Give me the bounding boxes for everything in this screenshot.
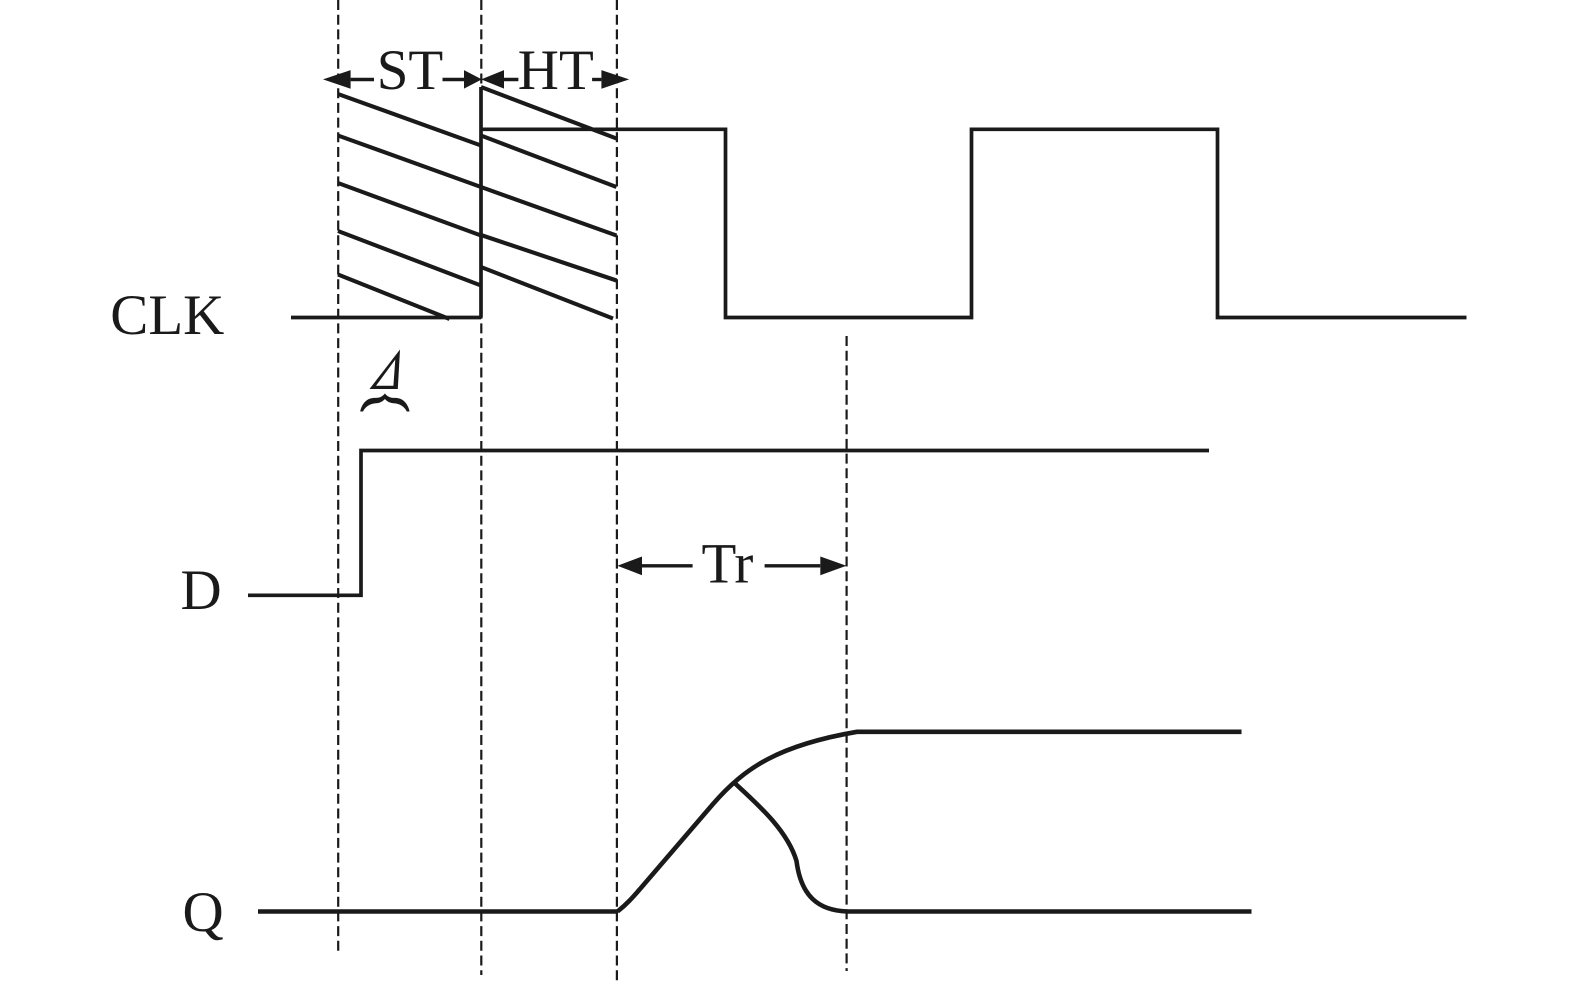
svg-text:Q: Q	[183, 881, 224, 944]
svg-text:CLK: CLK	[110, 284, 224, 347]
svg-text:ST: ST	[377, 39, 444, 102]
svg-text:Tr: Tr	[702, 533, 754, 596]
svg-text:D: D	[181, 559, 222, 622]
svg-text:HT: HT	[518, 39, 594, 102]
